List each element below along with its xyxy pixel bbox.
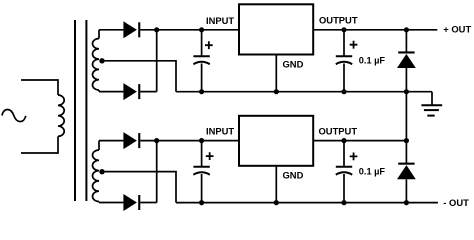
svg-text:0.1 µF: 0.1 µF bbox=[359, 56, 386, 66]
svg-text:OUTPUT: OUTPUT bbox=[319, 15, 358, 26]
svg-text:- OUT: - OUT bbox=[443, 197, 469, 208]
svg-text:INPUT: INPUT bbox=[206, 15, 234, 26]
svg-text:GND: GND bbox=[283, 59, 304, 70]
svg-text:GND: GND bbox=[283, 170, 304, 181]
svg-text:OUTPUT: OUTPUT bbox=[319, 126, 358, 137]
svg-text:INPUT: INPUT bbox=[206, 126, 234, 137]
svg-text:0.1 µF: 0.1 µF bbox=[359, 167, 386, 177]
svg-text:+ OUT: + OUT bbox=[443, 23, 471, 34]
